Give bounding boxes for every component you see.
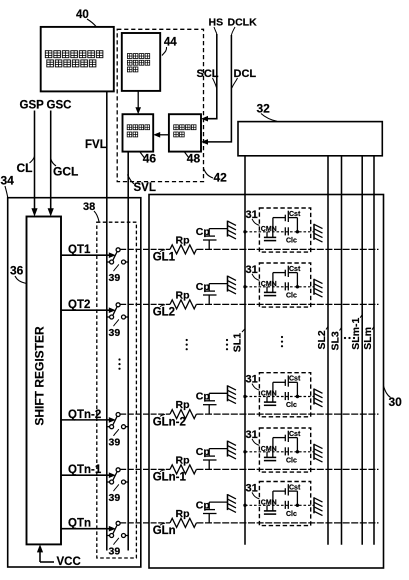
wire VCC arrow into shift register bbox=[37, 544, 54, 562]
svg-text:QTn: QTn bbox=[68, 518, 91, 530]
wire GSC arrow into shift register bbox=[48, 111, 54, 217]
svg-text:Cst: Cst bbox=[289, 485, 301, 492]
pixel cell 31 dashed box row 2 bbox=[259, 263, 310, 307]
switch 39 row 3 bbox=[107, 413, 128, 429]
svg-text:GL1: GL1 bbox=[153, 252, 176, 264]
wire QTn output from shift register bbox=[61, 526, 116, 532]
svg-text:32: 32 bbox=[257, 102, 271, 116]
ground for pixel cell row 2 bbox=[314, 279, 323, 297]
box 34 gate driver bbox=[8, 198, 141, 567]
wire gate line GLn-2 bbox=[120, 413, 378, 415]
ground for pixel cell row 4 bbox=[314, 444, 323, 462]
wire SCL from HS into box 48 bbox=[201, 34, 217, 122]
svg-text:GLn: GLn bbox=[153, 525, 176, 537]
label 46 bbox=[140, 152, 156, 166]
capacitor Clc row 2 bbox=[285, 282, 297, 299]
label SL2 bbox=[316, 327, 328, 350]
svg-text:Clc: Clc bbox=[286, 457, 297, 464]
wire source line SL1 bbox=[244, 156, 246, 545]
label 44 bbox=[162, 37, 177, 56]
svg-text:Cp: Cp bbox=[196, 499, 210, 511]
label 42 bbox=[204, 169, 228, 185]
capacitor Clc row 1 bbox=[285, 227, 297, 244]
box 40 low-level gate voltage generator bbox=[41, 27, 114, 92]
svg-text:39: 39 bbox=[109, 437, 121, 449]
svg-text:SVL: SVL bbox=[134, 182, 156, 194]
svg-text:Rp: Rp bbox=[176, 454, 190, 466]
switch 39 row 1 bbox=[107, 248, 128, 264]
box 44 high-level voltage generator bbox=[122, 33, 160, 91]
capacitor Cp row 5 bbox=[196, 499, 228, 523]
resistor Rp row 1 bbox=[170, 234, 196, 254]
label SL3 bbox=[329, 328, 341, 351]
label 39 row 2 bbox=[109, 319, 121, 339]
svg-text:QTn-1: QTn-1 bbox=[68, 464, 102, 476]
node vertical ellipsis gate line column bbox=[186, 339, 188, 350]
resistor Rp row 2 bbox=[170, 289, 196, 309]
svg-text:GSC: GSC bbox=[47, 100, 72, 112]
label FVL bbox=[85, 139, 107, 151]
resistor Rp row 5 bbox=[170, 508, 196, 528]
capacitor Cp row 2 bbox=[196, 281, 228, 305]
label 30 bbox=[384, 386, 403, 409]
switch 39 row 5 bbox=[107, 521, 128, 537]
capacitor Cst row 3 bbox=[273, 375, 301, 396]
svg-text:GCL: GCL bbox=[53, 165, 78, 179]
svg-text:GL2: GL2 bbox=[153, 307, 175, 319]
wire QTn-2 output from shift register bbox=[61, 417, 116, 423]
label QTn-1 bbox=[68, 464, 102, 476]
box 32 source driver bbox=[238, 122, 382, 156]
label SVL bbox=[128, 175, 156, 195]
wire gate line GL2 bbox=[120, 303, 378, 305]
svg-text:Clc: Clc bbox=[286, 511, 297, 518]
label 39 row 3 bbox=[109, 429, 121, 449]
capacitor Cst row 1 bbox=[273, 211, 301, 232]
svg-text:Rp: Rp bbox=[176, 399, 190, 411]
wire DCL from DCLK into box 48 bbox=[201, 35, 231, 145]
label DCL bbox=[232, 68, 257, 88]
box 46 voltage control unit bbox=[123, 114, 154, 151]
node vertical ellipsis switch column bbox=[118, 358, 120, 369]
label GLn-2 bbox=[153, 414, 186, 428]
svg-text:SLm: SLm bbox=[362, 327, 374, 350]
label 34 bbox=[1, 174, 15, 198]
svg-text:SL2: SL2 bbox=[316, 330, 328, 349]
label QT1 bbox=[68, 244, 91, 256]
svg-text:GSP: GSP bbox=[20, 100, 45, 112]
svg-text:40: 40 bbox=[76, 9, 89, 21]
label GL2 bbox=[153, 305, 175, 319]
svg-text:HS: HS bbox=[209, 17, 224, 29]
pixel cell 31 dashed box row 3 bbox=[259, 373, 310, 417]
svg-text:VCC: VCC bbox=[57, 556, 81, 568]
capacitor Cst row 5 bbox=[273, 484, 301, 505]
svg-text:QT1: QT1 bbox=[68, 244, 91, 256]
capacitor Cp row 1 bbox=[196, 226, 228, 250]
ground for pixel cell row 5 bbox=[314, 497, 323, 515]
svg-text:SL1: SL1 bbox=[232, 333, 244, 352]
capacitor Cp row 3 bbox=[196, 391, 228, 415]
wire arrow 44 to 46 bbox=[135, 91, 141, 114]
ground for Cp row 4 bbox=[228, 441, 237, 459]
resistor Rp row 3 bbox=[170, 399, 196, 419]
transistor CMN row 2 bbox=[261, 281, 277, 296]
label CL bbox=[17, 157, 35, 176]
label SCL bbox=[197, 68, 219, 88]
ground for Cp row 2 bbox=[228, 276, 237, 294]
ground for Cp row 5 bbox=[228, 494, 237, 512]
node vertical ellipsis pixel column bbox=[281, 336, 283, 347]
label 31 row 3 bbox=[246, 374, 260, 391]
svg-text:CMN: CMN bbox=[261, 391, 277, 398]
svg-text:39: 39 bbox=[109, 272, 121, 284]
label 39 row 5 bbox=[109, 538, 121, 558]
svg-text:DCLK: DCLK bbox=[228, 17, 258, 29]
svg-text:Cp: Cp bbox=[196, 446, 210, 458]
svg-text:39: 39 bbox=[109, 492, 121, 504]
svg-text:SCL: SCL bbox=[197, 68, 219, 80]
wire GSP arrow into shift register bbox=[31, 111, 37, 217]
dashed box 38 switch array bbox=[97, 222, 137, 558]
pixel cell 31 dashed box row 4 bbox=[259, 428, 310, 472]
transistor CMN row 3 bbox=[261, 391, 277, 406]
svg-text:GLn-2: GLn-2 bbox=[153, 416, 186, 428]
svg-text:CMN: CMN bbox=[261, 446, 277, 453]
capacitor Cst row 2 bbox=[273, 266, 301, 287]
svg-text:42: 42 bbox=[214, 171, 228, 185]
svg-text:SL3: SL3 bbox=[329, 331, 341, 350]
capacitor Cp row 4 bbox=[196, 446, 228, 470]
box 30 display panel bbox=[149, 195, 384, 569]
node common line row 4 bbox=[243, 450, 314, 453]
resistor Rp row 4 bbox=[170, 454, 196, 474]
wire QTn-1 output from shift register bbox=[61, 472, 116, 478]
svg-text:Clc: Clc bbox=[286, 237, 297, 244]
svg-text:Cst: Cst bbox=[289, 376, 301, 383]
label 32 bbox=[257, 102, 278, 122]
label HS bbox=[209, 17, 224, 35]
svg-text:Cst: Cst bbox=[289, 211, 301, 218]
svg-text:QT2: QT2 bbox=[68, 299, 90, 311]
svg-text:44: 44 bbox=[164, 37, 177, 49]
node common line row 3 bbox=[243, 395, 314, 398]
wire arrow 48 to 46 bbox=[153, 132, 169, 138]
node common line row 2 bbox=[243, 285, 314, 288]
dashed box 42 gate voltage supply unit bbox=[117, 29, 203, 181]
label SLm-1 bbox=[350, 315, 362, 350]
label GSP bbox=[20, 100, 45, 112]
transistor CMN row 4 bbox=[261, 446, 277, 461]
label GLn bbox=[153, 523, 176, 537]
node vertical ellipsis Cp column bbox=[226, 339, 228, 350]
wire FVL from box 40 bbox=[106, 91, 108, 550]
label 48 bbox=[185, 152, 201, 166]
svg-text:Cp: Cp bbox=[196, 281, 210, 293]
svg-text:QTn-2: QTn-2 bbox=[68, 409, 101, 421]
label VCC bbox=[57, 556, 81, 568]
ground for pixel cell row 3 bbox=[314, 389, 323, 407]
label SL1 bbox=[232, 329, 245, 352]
transistor CMN row 5 bbox=[261, 499, 277, 514]
label 31 row 5 bbox=[246, 482, 260, 499]
svg-text:Cst: Cst bbox=[289, 431, 301, 438]
svg-text:CMN: CMN bbox=[261, 281, 277, 288]
ground for pixel cell row 1 bbox=[314, 224, 323, 242]
wire gate line GLn bbox=[120, 522, 378, 524]
svg-text:Cp: Cp bbox=[196, 226, 210, 238]
svg-text:Cp: Cp bbox=[196, 391, 210, 403]
ground for Cp row 3 bbox=[228, 385, 237, 403]
switch 39 row 2 bbox=[107, 303, 128, 319]
label 40 bbox=[76, 9, 97, 27]
label GCL bbox=[51, 159, 79, 179]
svg-text:Cst: Cst bbox=[289, 266, 301, 273]
box 36 shift register bbox=[27, 217, 62, 545]
svg-text:46: 46 bbox=[143, 152, 157, 166]
pixel cell 31 dashed box row 1 bbox=[259, 208, 310, 252]
label QT2 bbox=[68, 299, 90, 311]
svg-text:CMN: CMN bbox=[261, 499, 277, 506]
wire gate line GL1 bbox=[120, 248, 378, 250]
box 48 timing control unit bbox=[169, 114, 201, 151]
svg-text:FVL: FVL bbox=[85, 139, 107, 151]
wire source line SLm bbox=[373, 156, 375, 545]
label GSC bbox=[47, 100, 72, 112]
label 38 bbox=[83, 201, 99, 222]
svg-text:CMN: CMN bbox=[261, 226, 277, 233]
svg-text:36: 36 bbox=[10, 264, 24, 278]
svg-text:Rp: Rp bbox=[176, 289, 190, 301]
label 31 row 1 bbox=[246, 209, 260, 226]
ground for Cp row 1 bbox=[228, 221, 237, 239]
capacitor Clc row 5 bbox=[285, 501, 297, 518]
label GL1 bbox=[153, 250, 176, 264]
wire source line SL3 bbox=[341, 156, 343, 545]
label 36 bbox=[10, 264, 27, 284]
svg-text:Rp: Rp bbox=[176, 234, 190, 246]
svg-text:GLn-1: GLn-1 bbox=[153, 472, 187, 484]
svg-text:48: 48 bbox=[187, 152, 201, 166]
label 39 row 1 bbox=[109, 264, 121, 284]
svg-text:34: 34 bbox=[1, 174, 15, 188]
label 31 row 4 bbox=[246, 429, 260, 446]
wire QT1 output from shift register bbox=[61, 252, 116, 258]
svg-text:39: 39 bbox=[109, 327, 121, 339]
wire source line SLm-1 bbox=[361, 156, 363, 545]
label GLn-1 bbox=[153, 470, 187, 484]
label 31 row 2 bbox=[246, 264, 260, 281]
wire QT2 output from shift register bbox=[61, 307, 116, 313]
svg-text:Clc: Clc bbox=[286, 292, 297, 299]
capacitor Clc row 3 bbox=[285, 392, 297, 409]
label QTn bbox=[68, 518, 91, 530]
label QTn-2 bbox=[68, 409, 101, 421]
svg-text:SHIFT REGISTER: SHIFT REGISTER bbox=[33, 326, 47, 426]
label SLm bbox=[362, 327, 374, 350]
node common line row 5 bbox=[243, 504, 314, 507]
capacitor Cst row 4 bbox=[273, 431, 301, 452]
switch 39 row 4 bbox=[107, 468, 128, 484]
svg-text:SLm-1: SLm-1 bbox=[350, 317, 362, 349]
svg-text:Rp: Rp bbox=[176, 508, 190, 520]
capacitor Clc row 4 bbox=[285, 447, 297, 464]
svg-text:Clc: Clc bbox=[286, 402, 297, 409]
svg-text:38: 38 bbox=[83, 201, 95, 213]
wire source line SL2 bbox=[327, 156, 329, 545]
transistor CMN row 1 bbox=[261, 226, 277, 241]
svg-text:39: 39 bbox=[109, 545, 121, 557]
wire SVL from box 46 bbox=[127, 152, 129, 551]
label 39 row 4 bbox=[109, 484, 121, 504]
pixel cell 31 dashed box row 5 bbox=[259, 482, 310, 526]
label DCLK bbox=[228, 17, 258, 36]
node horizontal ellipsis between SL3 and SLm-1 bbox=[344, 337, 355, 339]
node common line row 1 bbox=[243, 230, 314, 233]
wire gate line GLn-1 bbox=[120, 468, 378, 470]
